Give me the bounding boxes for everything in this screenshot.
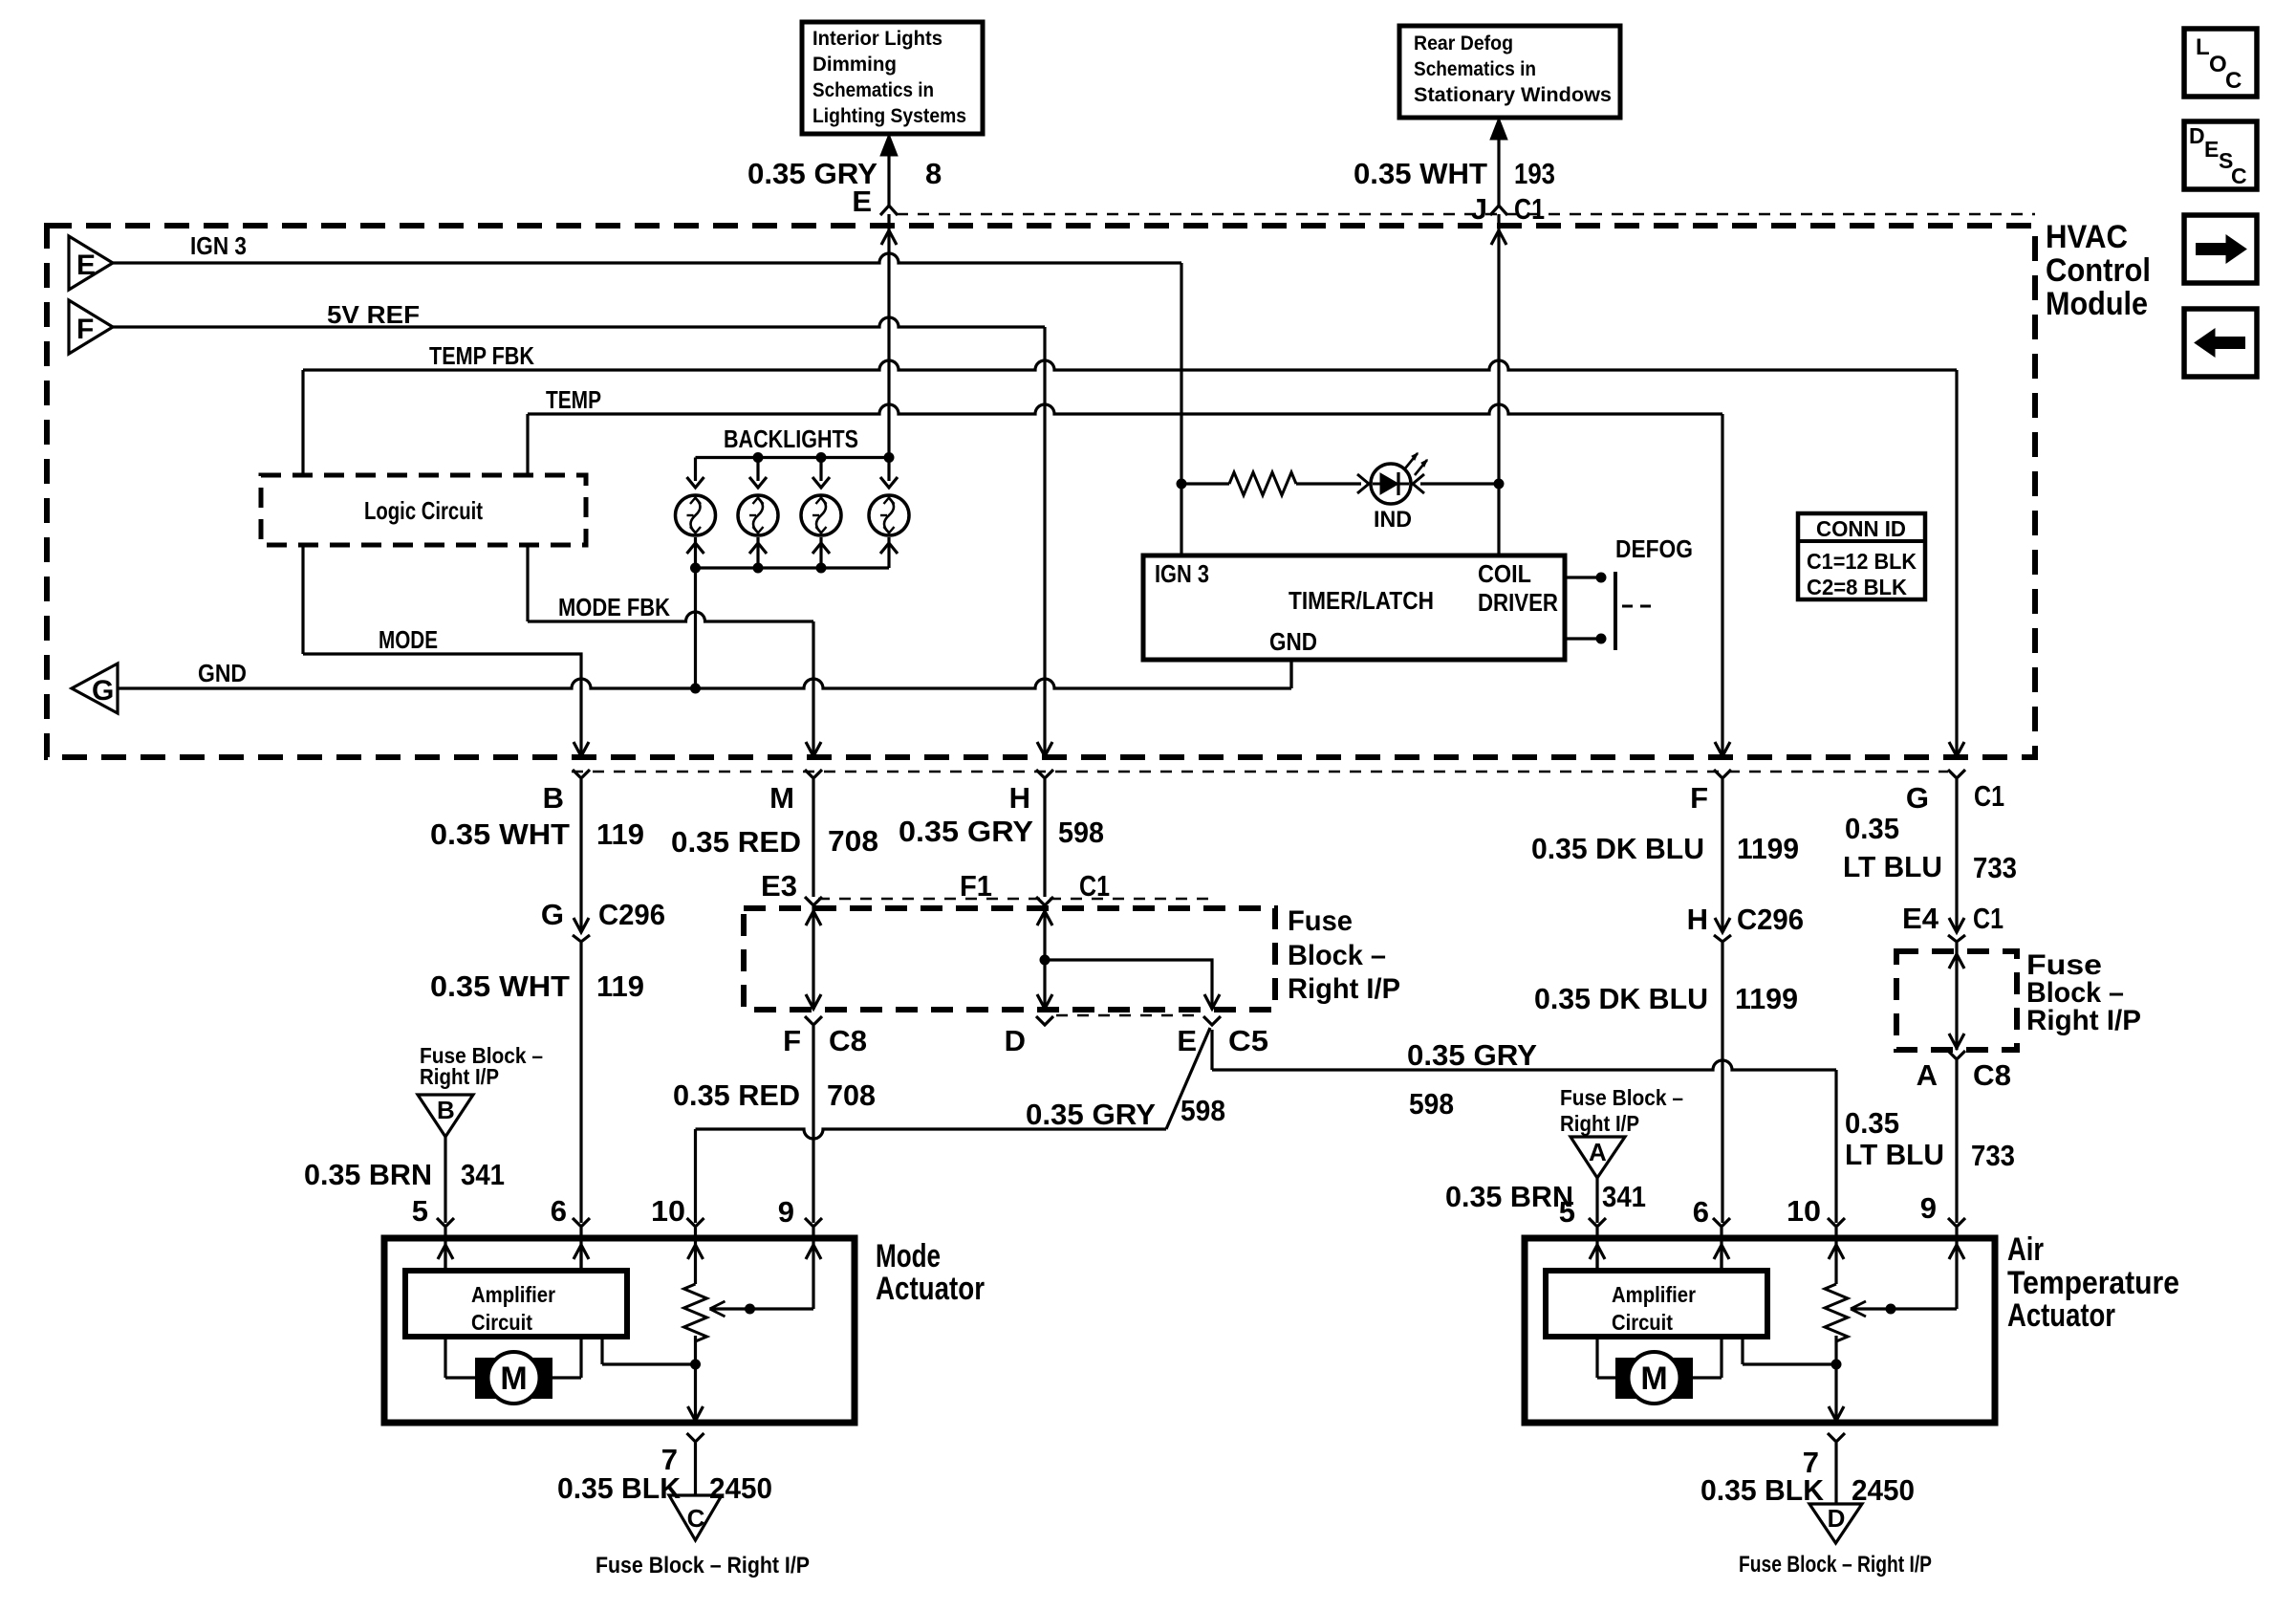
svg-text:Schematics in: Schematics in (1414, 58, 1536, 80)
svg-text:B: B (437, 1096, 455, 1124)
svg-text:C8: C8 (1973, 1058, 2011, 1092)
svg-text:341: 341 (461, 1158, 505, 1191)
svg-text:6: 6 (551, 1194, 567, 1228)
svg-text:C: C (2225, 68, 2242, 94)
svg-text:6: 6 (1693, 1195, 1709, 1229)
svg-text:D: D (2189, 123, 2205, 148)
svg-text:HVAC: HVAC (2046, 219, 2128, 255)
svg-text:Control: Control (2046, 252, 2151, 289)
svg-text:IGN 3: IGN 3 (1155, 559, 1209, 588)
svg-text:Mode: Mode (876, 1238, 941, 1274)
svg-text:D: D (1828, 1504, 1846, 1533)
svg-text:598: 598 (1180, 1094, 1225, 1127)
svg-text:E4: E4 (1902, 902, 1939, 935)
svg-text:0.35 RED: 0.35 RED (671, 825, 801, 859)
svg-text:C5: C5 (1228, 1024, 1268, 1057)
svg-text:10: 10 (651, 1194, 685, 1228)
svg-text:E: E (2204, 137, 2219, 162)
svg-text:Circuit: Circuit (1612, 1310, 1673, 1335)
svg-text:M: M (1640, 1361, 1667, 1397)
svg-text:0.35 DK BLU: 0.35 DK BLU (1531, 832, 1704, 865)
svg-text:5V REF: 5V REF (327, 300, 420, 329)
svg-text:9: 9 (778, 1195, 794, 1229)
svg-text:0.35 BRN: 0.35 BRN (1445, 1180, 1573, 1213)
svg-text:Dimming: Dimming (812, 54, 897, 76)
svg-text:C8: C8 (829, 1024, 867, 1057)
svg-text:341: 341 (1602, 1180, 1646, 1213)
svg-text:IND: IND (1374, 507, 1412, 533)
svg-text:C1: C1 (1514, 192, 1545, 226)
svg-text:A: A (1589, 1138, 1607, 1166)
svg-text:F: F (76, 314, 94, 345)
svg-text:9: 9 (1920, 1191, 1937, 1225)
svg-text:Right I/P: Right I/P (2026, 1005, 2141, 1036)
svg-text:Logic Circuit: Logic Circuit (364, 496, 483, 525)
svg-text:C1: C1 (1973, 902, 2004, 935)
svg-text:733: 733 (1973, 851, 2017, 884)
svg-text:L: L (2196, 34, 2210, 60)
svg-text:193: 193 (1514, 157, 1555, 190)
svg-text:10: 10 (1787, 1194, 1821, 1228)
svg-text:G: G (541, 898, 564, 931)
svg-text:Rear Defog: Rear Defog (1414, 33, 1513, 54)
svg-text:GND: GND (1269, 627, 1317, 656)
svg-text:C1: C1 (1079, 869, 1110, 903)
svg-text:Interior Lights: Interior Lights (812, 28, 942, 50)
svg-text:Lighting Systems: Lighting Systems (812, 105, 966, 127)
svg-text:5: 5 (1559, 1195, 1575, 1229)
svg-text:708: 708 (827, 1078, 876, 1112)
svg-text:0.35 RED: 0.35 RED (673, 1078, 800, 1112)
svg-text:Right I/P: Right I/P (1288, 973, 1400, 1005)
svg-text:0.35: 0.35 (1845, 1106, 1899, 1140)
svg-text:MODE: MODE (379, 625, 438, 654)
svg-text:B: B (543, 781, 564, 815)
svg-text:Temperature: Temperature (2007, 1265, 2179, 1301)
svg-text:Fuse: Fuse (1288, 905, 1353, 937)
svg-text:C1=12 BLK: C1=12 BLK (1807, 549, 1917, 574)
svg-text:G: G (1906, 781, 1929, 815)
svg-text:E: E (76, 250, 96, 281)
svg-text:CONN ID: CONN ID (1816, 516, 1906, 541)
svg-text:C296: C296 (1737, 903, 1804, 936)
svg-text:708: 708 (828, 824, 878, 858)
svg-text:F: F (783, 1024, 801, 1057)
svg-text:Fuse Block –: Fuse Block – (1560, 1085, 1683, 1110)
svg-text:C1: C1 (1974, 779, 2004, 813)
svg-text:Amplifier: Amplifier (471, 1282, 555, 1307)
svg-text:0.35 WHT: 0.35 WHT (430, 817, 570, 851)
svg-text:Right I/P: Right I/P (1560, 1111, 1639, 1136)
svg-text:F: F (1690, 781, 1708, 815)
svg-text:2450: 2450 (1852, 1473, 1915, 1507)
svg-text:Module: Module (2046, 286, 2148, 322)
svg-text:Actuator: Actuator (876, 1271, 985, 1307)
svg-text:F1: F1 (960, 869, 992, 903)
svg-text:C2=8 BLK: C2=8 BLK (1807, 575, 1907, 599)
svg-text:Fuse Block – Right I/P: Fuse Block – Right I/P (1739, 1552, 1932, 1578)
svg-text:MODE FBK: MODE FBK (558, 593, 670, 621)
svg-text:M: M (500, 1361, 527, 1397)
svg-text:1199: 1199 (1735, 982, 1798, 1015)
svg-text:TEMP FBK: TEMP FBK (429, 341, 534, 370)
svg-text:E: E (852, 185, 872, 218)
svg-text:C: C (687, 1504, 705, 1533)
svg-text:Air: Air (2007, 1231, 2044, 1268)
svg-text:C: C (2231, 163, 2247, 188)
svg-text:D: D (1005, 1024, 1026, 1057)
svg-text:BACKLIGHTS: BACKLIGHTS (724, 425, 858, 453)
svg-text:Schematics in: Schematics in (812, 79, 934, 101)
svg-text:0.35 WHT: 0.35 WHT (430, 969, 570, 1003)
svg-text:0.35 BLK: 0.35 BLK (557, 1471, 682, 1505)
svg-text:G: G (92, 675, 114, 707)
svg-text:H: H (1009, 781, 1030, 815)
svg-text:8: 8 (925, 157, 942, 190)
svg-text:0.35 BLK: 0.35 BLK (1700, 1473, 1825, 1507)
svg-text:Block –: Block – (1288, 940, 1386, 971)
svg-text:LT BLU: LT BLU (1845, 1138, 1944, 1171)
svg-text:DEFOG: DEFOG (1615, 534, 1693, 563)
svg-text:Right I/P: Right I/P (420, 1064, 499, 1089)
svg-text:1199: 1199 (1737, 832, 1799, 865)
svg-text:O: O (2209, 52, 2227, 77)
svg-text:Circuit: Circuit (471, 1310, 532, 1335)
svg-text:J: J (1471, 192, 1487, 226)
svg-text:0.35 WHT: 0.35 WHT (1354, 157, 1487, 190)
svg-text:2450: 2450 (709, 1471, 772, 1505)
svg-text:598: 598 (1058, 816, 1104, 849)
svg-text:LT BLU: LT BLU (1843, 850, 1942, 883)
svg-text:119: 119 (596, 817, 644, 851)
svg-text:0.35 GRY: 0.35 GRY (1026, 1098, 1156, 1131)
svg-text:Fuse Block – Right I/P: Fuse Block – Right I/P (596, 1553, 810, 1578)
svg-text:M: M (769, 781, 794, 815)
svg-text:COIL: COIL (1478, 559, 1531, 588)
svg-text:DRIVER: DRIVER (1478, 588, 1558, 617)
svg-text:E: E (1177, 1024, 1197, 1057)
svg-text:TIMER/LATCH: TIMER/LATCH (1289, 586, 1434, 615)
svg-text:598: 598 (1409, 1087, 1454, 1121)
svg-text:E3: E3 (761, 869, 797, 903)
svg-text:0.35 GRY: 0.35 GRY (899, 815, 1033, 848)
svg-text:IGN 3: IGN 3 (190, 231, 247, 260)
svg-text:0.35 BRN: 0.35 BRN (304, 1158, 432, 1191)
svg-text:C296: C296 (598, 898, 665, 931)
svg-text:TEMP: TEMP (546, 385, 601, 414)
svg-text:0.35 DK BLU: 0.35 DK BLU (1534, 982, 1708, 1015)
svg-text:5: 5 (412, 1194, 428, 1228)
svg-text:733: 733 (1971, 1139, 2015, 1172)
svg-text:Stationary Windows: Stationary Windows (1414, 84, 1612, 106)
svg-text:119: 119 (596, 969, 644, 1003)
svg-text:Actuator: Actuator (2007, 1297, 2115, 1334)
svg-text:0.35: 0.35 (1845, 812, 1899, 845)
svg-text:Amplifier: Amplifier (1612, 1282, 1696, 1307)
svg-text:A: A (1917, 1058, 1938, 1092)
svg-text:H: H (1687, 903, 1708, 936)
svg-text:GND: GND (198, 659, 247, 687)
svg-text:0.35 GRY: 0.35 GRY (1407, 1038, 1537, 1072)
